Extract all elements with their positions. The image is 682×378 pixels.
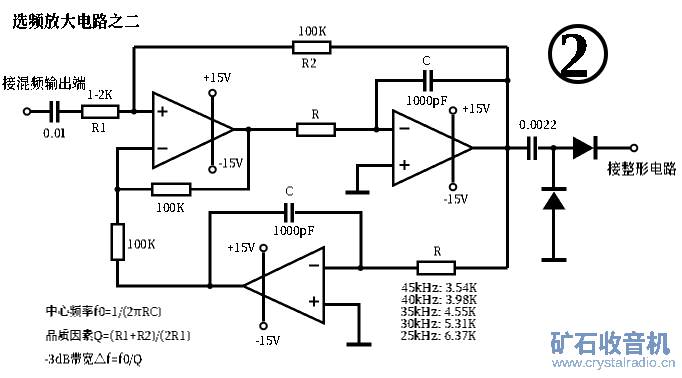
resistor R bottom <box>418 262 455 275</box>
title 选频放大电路之二 <box>13 13 139 29</box>
wire C3 to R1 <box>60 110 83 113</box>
formula line 3 <box>45 353 142 367</box>
node F bus junction <box>505 145 511 151</box>
label C of C2 <box>286 187 293 196</box>
wire R to U2 - input <box>335 128 394 131</box>
ref R1 <box>92 123 105 132</box>
output terminal <box>631 145 638 152</box>
diode D2 <box>543 192 566 210</box>
resistor 100K vertical <box>112 224 124 260</box>
node A junction <box>131 109 137 115</box>
wire node C up to C1 <box>377 81 424 130</box>
U2 +15V terminal <box>450 107 457 114</box>
diode D2 cathode bar <box>542 187 567 191</box>
circled 2 figure number <box>550 26 606 82</box>
label +15V U2 <box>463 104 490 113</box>
node G junction <box>551 145 557 151</box>
right vertical bus wire <box>506 47 509 268</box>
diode D1 <box>573 137 594 160</box>
wire C1 to bus <box>433 79 508 82</box>
value 100K feedback <box>157 203 184 212</box>
label 接整形电路 (output net) <box>607 162 676 176</box>
capacitor C2 1000pF <box>284 203 287 223</box>
wire U2 output <box>473 147 527 150</box>
op-amp U2 <box>393 111 473 186</box>
label -15V U1 <box>219 159 243 168</box>
input terminal <box>24 108 31 115</box>
U3 - input symbol <box>309 264 319 266</box>
wire to R2 left <box>134 46 293 49</box>
wire node E up to C2 <box>210 213 284 287</box>
value 1-2K <box>88 90 112 99</box>
ground U3 + <box>347 343 372 347</box>
U2 power rail line <box>452 115 455 183</box>
wire R1 to op-amp U1 + input <box>118 110 153 113</box>
wire 100K fb to output node <box>190 130 249 190</box>
value 1000pF of C1 <box>407 96 447 108</box>
node U1 output junction <box>246 127 252 133</box>
label -15V U3 <box>256 336 280 345</box>
op-amp U3 <box>243 248 324 324</box>
node H junction <box>358 265 364 271</box>
node C junction <box>374 127 380 133</box>
watermark url <box>552 357 675 370</box>
node B junction <box>115 186 121 192</box>
resistor R1 <box>82 106 118 118</box>
formula line 1 <box>47 305 161 318</box>
ground D2 <box>542 258 567 262</box>
value 0.0022 <box>519 120 556 129</box>
resistor 100K feedback <box>152 184 190 196</box>
table row 40kHz <box>402 294 477 304</box>
wire U1 - input feedback <box>118 149 154 190</box>
op-amp U1 <box>153 93 234 169</box>
value 100K of R2 <box>299 27 326 36</box>
label +15V U3 <box>228 243 255 252</box>
value R bottom <box>434 247 441 256</box>
value R series <box>312 110 319 119</box>
wire node A up to R2 <box>133 47 136 112</box>
U2 - input symbol <box>400 127 410 129</box>
table row 25kHz <box>402 330 476 340</box>
wire 100K vertical to U3 output <box>118 260 244 287</box>
watermark 矿石收音机 <box>551 331 670 355</box>
label 接混频输出端 (input net) <box>2 76 85 90</box>
wire U3 + input to ground <box>324 305 360 343</box>
formula line 2 <box>47 329 190 343</box>
wire R bottom to bus <box>455 267 508 270</box>
wire D1 to output terminal <box>598 147 632 150</box>
digit 2 of figure number <box>561 34 587 77</box>
value 1000pF of C2 <box>274 226 314 238</box>
U3 +15V terminal <box>260 245 267 252</box>
U2 -15V terminal <box>450 184 457 191</box>
table row 45kHz <box>402 282 477 292</box>
resistor R2 <box>293 42 330 54</box>
U3 power rail line <box>262 252 265 321</box>
label C of C1 <box>423 56 430 65</box>
table row 30kHz <box>402 318 476 328</box>
wire C2 to U3 - input node <box>295 213 361 269</box>
wire C4 to diode D1 <box>538 147 573 150</box>
node D junction on bus <box>505 78 511 84</box>
label +15V U1 <box>204 73 231 82</box>
ref R2 <box>302 59 316 68</box>
wire R2 right to bus <box>330 46 508 49</box>
ground U2 + <box>346 191 370 195</box>
value 0.01 <box>43 129 65 138</box>
node E junction <box>207 283 213 289</box>
wire U2 + input to ground <box>358 166 394 191</box>
wire U1 output <box>234 128 297 131</box>
wire node G down to D2 <box>552 148 555 187</box>
wire input to C3 <box>30 110 50 113</box>
resistor R series <box>297 124 335 136</box>
U1 + input symbol <box>158 107 168 117</box>
wire bottom R row <box>324 267 418 270</box>
wire D2 to bottom bar <box>552 210 555 259</box>
capacitor C1 1000pF <box>423 70 426 92</box>
U2 + input symbol <box>400 160 410 170</box>
wire node B down to 100K vertical <box>116 189 119 224</box>
capacitor C3 0.01 <box>50 101 53 123</box>
U1 -15V terminal <box>209 166 216 173</box>
capacitor C4 0.0022 <box>527 136 530 160</box>
U3 -15V terminal <box>260 323 267 330</box>
wire node B to 100K fb <box>118 188 153 191</box>
value 100K vertical <box>128 240 155 249</box>
label -15V U2 <box>444 195 468 204</box>
U1 power rail line <box>211 97 214 165</box>
U3 + input symbol <box>309 297 319 307</box>
table row 35kHz <box>402 306 476 316</box>
U1 - input symbol <box>158 147 168 149</box>
U1 +15V terminal <box>209 90 216 97</box>
